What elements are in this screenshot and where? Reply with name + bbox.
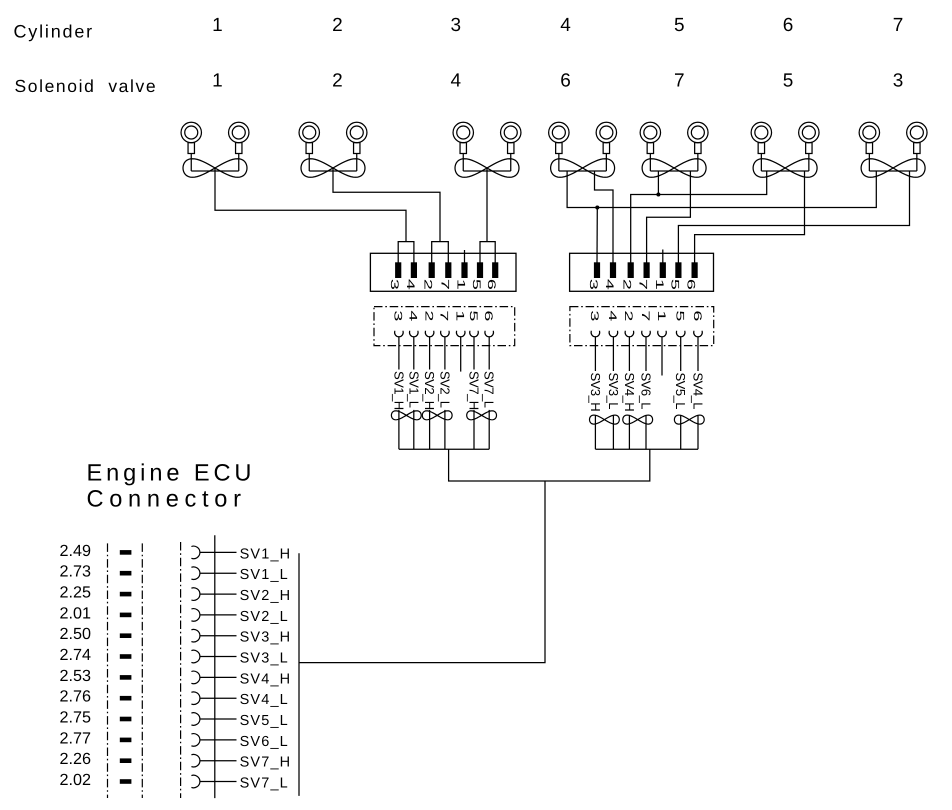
svg-text:Cylinder: Cylinder [14, 22, 94, 42]
wire solenoid SV1 center tap to connector A pins 3-4 [215, 168, 406, 242]
svg-text:2: 2 [621, 279, 633, 290]
svg-text:4: 4 [603, 279, 615, 290]
connector B pin 2 [628, 262, 634, 278]
svg-text:1: 1 [655, 310, 667, 321]
wire ECU SV3_L [200, 656, 237, 658]
ECU pin contact 2.02 [120, 779, 132, 784]
svg-text:2.49: 2.49 [60, 542, 92, 560]
connector A pin 6 [492, 262, 498, 278]
wire stub connector B pin 1 [662, 250, 664, 263]
connector A housing [370, 253, 516, 291]
wire mating connector A pin 1 unterminated [460, 336, 462, 371]
svg-text:5: 5 [668, 279, 680, 290]
ECU socket SV1_H [191, 546, 200, 559]
svg-text:3: 3 [392, 310, 404, 321]
connector A pin 5 [477, 262, 483, 278]
svg-text:6: 6 [560, 70, 571, 91]
connector B pin 6 [692, 262, 698, 278]
svg-text:6: 6 [783, 15, 794, 36]
svg-text:SV4_H: SV4_H [622, 373, 637, 412]
ECU pin contact 2.74 [120, 654, 132, 659]
svg-text:SV2_H: SV2_H [240, 588, 292, 604]
wire SV2_H harness (left) [429, 336, 431, 369]
svg-text:SV1_H: SV1_H [391, 371, 406, 410]
ECU pin contact 2.26 [120, 758, 132, 763]
twisted pair symbol SV1 (left) [391, 411, 421, 420]
svg-text:5: 5 [674, 310, 686, 321]
ECU pin contact 2.75 [120, 717, 132, 722]
wire SV2_L harness (left) [444, 336, 446, 369]
svg-text:SV1_L: SV1_L [406, 371, 421, 408]
svg-text:2.77: 2.77 [60, 729, 92, 747]
wire ECU SV1_H [200, 551, 237, 553]
ECU socket SV7_H [191, 754, 200, 767]
svg-text:SV2_H: SV2_H [422, 371, 437, 410]
wire ECU SV6_L [200, 739, 237, 741]
wire SV7_H harness (left) [473, 336, 475, 369]
ECU boundary line 2 (dash-dot) [141, 543, 143, 798]
mating connector A outline (dash-dot) [374, 307, 515, 346]
twisted pair symbol SV5/SV4 (right) [674, 415, 704, 424]
svg-text:3: 3 [587, 279, 599, 290]
svg-text:2: 2 [622, 310, 634, 321]
connector B housing [570, 253, 714, 291]
twisted pair symbol SV3 (right) [590, 415, 620, 424]
ECU socket SV7_L [191, 775, 200, 788]
solenoid valve coil SV6 (cylinder 4) [549, 122, 617, 177]
wire ECU SV1_L [200, 572, 237, 574]
wire SV3_L harness (right) [612, 336, 614, 371]
wire SV7_L harness (left) [488, 336, 490, 369]
svg-text:3: 3 [388, 279, 400, 290]
svg-text:6: 6 [685, 279, 697, 290]
ECU pin contact 2.49 [120, 550, 132, 555]
svg-text:7: 7 [438, 279, 450, 290]
svg-text:2: 2 [422, 279, 434, 290]
wire harness trunk to Engine ECU [299, 481, 545, 663]
svg-text:SV5_L: SV5_L [240, 713, 289, 729]
ECU connector body line [214, 535, 216, 798]
wire ECU SV7_L [200, 781, 237, 783]
svg-text:2.76: 2.76 [60, 688, 92, 706]
wire mating connector B pin 1 unterminated [661, 336, 663, 375]
svg-text:5: 5 [674, 15, 685, 36]
solenoid valve coil SV1 (cylinder 1) [181, 122, 249, 177]
svg-text:4: 4 [404, 279, 416, 290]
wire bridge connector A pins 2-7 [432, 242, 449, 263]
wire solenoid SV3 right lead to connector B pin 5 [678, 171, 909, 263]
wire SV4_L harness (right) [697, 336, 699, 371]
svg-text:1: 1 [454, 310, 466, 321]
svg-text:5: 5 [470, 279, 482, 290]
svg-text:1: 1 [455, 279, 467, 290]
svg-text:2: 2 [332, 15, 343, 36]
connector A pin 7 [445, 262, 451, 278]
svg-text:7: 7 [674, 70, 685, 91]
wire ECU SV4_L [200, 697, 237, 699]
connector B pin 1 [660, 262, 666, 278]
svg-text:Solenoid valve: Solenoid valve [15, 76, 158, 96]
svg-text:2.01: 2.01 [60, 604, 92, 622]
svg-text:SV4_L: SV4_L [240, 692, 289, 708]
wire solenoid SV2 center tap to connector A pins 2-7 [333, 168, 440, 242]
connector A pin 4 [411, 262, 417, 278]
wire ECU SV4_H [200, 676, 237, 678]
wire stub connector A pin 1 [464, 250, 466, 263]
wire branch down to connector B pin 3 [596, 208, 598, 263]
svg-text:3: 3 [588, 310, 600, 321]
svg-text:SV6_L: SV6_L [240, 734, 289, 750]
svg-text:7: 7 [438, 310, 450, 321]
svg-text:SV7_H: SV7_H [467, 371, 482, 410]
svg-text:SV4_L: SV4_L [691, 373, 706, 410]
svg-text:7: 7 [893, 15, 904, 36]
ECU pin contact 2.01 [120, 613, 132, 618]
wire ECU SV3_H [200, 635, 237, 637]
svg-text:SV2_L: SV2_L [240, 609, 289, 625]
ECU pin contact 2.77 [120, 738, 132, 743]
ECU socket SV6_L [191, 734, 200, 747]
wire solenoid SV4 center tap to connector A pins 5-6 [486, 168, 488, 242]
wire solenoid SV6 right lead to connector B pin 4 [595, 171, 614, 263]
svg-text:1: 1 [212, 70, 223, 91]
bus junction right harness [595, 448, 698, 450]
wire SV1_H harness (left) [398, 336, 400, 369]
ECU boundary line 1 (dash-dot) [107, 543, 109, 798]
svg-text:SV3_H: SV3_H [240, 630, 292, 646]
svg-text:7: 7 [639, 310, 651, 321]
svg-text:SV7_H: SV7_H [240, 755, 292, 771]
svg-text:1: 1 [653, 279, 665, 290]
solenoid valve coil SV5 (cylinder 6) [751, 122, 819, 177]
svg-text:1: 1 [212, 15, 223, 36]
svg-text:SV6_L: SV6_L [639, 373, 654, 410]
svg-text:6: 6 [482, 310, 494, 321]
svg-text:SV7_L: SV7_L [482, 371, 497, 408]
svg-text:4: 4 [407, 310, 419, 321]
wire bridge connector A pins 3-4 [398, 242, 414, 263]
wire SV5_L harness (right) [680, 336, 682, 371]
svg-text:SV5_L: SV5_L [673, 373, 688, 410]
wire ECU SV7_H [200, 760, 237, 762]
svg-text:6: 6 [691, 310, 703, 321]
ECU socket SV2_H [191, 588, 200, 601]
svg-text:5: 5 [467, 310, 479, 321]
wire SV1_L harness (left) [413, 336, 415, 369]
connector A pin 3 [395, 262, 401, 278]
svg-text:2.25: 2.25 [60, 583, 92, 601]
svg-text:2: 2 [422, 310, 434, 321]
svg-text:SV4_H: SV4_H [240, 671, 292, 687]
connector B pin 3 [594, 262, 600, 278]
junction node SV7 left lead [656, 193, 660, 197]
ECU socket SV4_L [191, 692, 200, 705]
wire solenoid SV6 left lead to connector B pin 3 and SV3 left lead [567, 171, 876, 208]
ECU socket SV3_L [191, 650, 200, 663]
svg-text:SV1_H: SV1_H [240, 546, 292, 562]
connector B pin 7 [644, 262, 650, 278]
ECU pin contact 2.76 [120, 696, 132, 701]
svg-text:2.73: 2.73 [60, 563, 92, 581]
svg-text:2.50: 2.50 [60, 625, 92, 643]
connector B pin 5 [675, 262, 681, 278]
svg-text:5: 5 [783, 70, 794, 91]
ECU socket SV1_L [191, 567, 200, 580]
wire solenoid SV7 right lead to connector B pin 7 [647, 171, 691, 263]
svg-text:SV2_L: SV2_L [437, 371, 452, 408]
connector A pin 2 [429, 262, 435, 278]
solenoid valve coil SV7 (cylinder 5) [640, 122, 708, 177]
wire SV3_H harness (right) [594, 336, 596, 371]
svg-text:3: 3 [893, 70, 904, 91]
svg-text:4: 4 [606, 310, 618, 321]
svg-text:2.53: 2.53 [60, 667, 92, 685]
svg-text:7: 7 [637, 279, 649, 290]
svg-text:3: 3 [451, 15, 462, 36]
ECU socket SV2_L [191, 609, 200, 622]
wire ECU SV5_L [200, 718, 237, 720]
svg-text:4: 4 [451, 70, 462, 91]
twisted pair symbol SV4/SV6 (right) [623, 415, 653, 424]
wire solenoid SV7 left lead junction [657, 171, 659, 195]
ECU pin contact 2.50 [120, 633, 132, 638]
svg-text:SV3_H: SV3_H [588, 373, 603, 412]
svg-text:2.26: 2.26 [60, 750, 92, 768]
svg-text:2.74: 2.74 [60, 646, 92, 664]
wire ECU SV2_H [200, 593, 237, 595]
ECU socket SV3_H [191, 629, 200, 642]
svg-text:SV3_L: SV3_L [606, 373, 621, 410]
connector B pin 4 [610, 262, 616, 278]
svg-text:2: 2 [332, 70, 343, 91]
mating connector B outline (dash-dot) [570, 307, 714, 346]
svg-text:4: 4 [560, 15, 571, 36]
wire bridge connector A pins 5-6 [480, 242, 495, 263]
ECU harness bus line [298, 553, 300, 796]
connector A pin 1 [461, 262, 467, 278]
ECU boundary line 3 (dash-dot) [180, 542, 182, 798]
svg-text:Engine ECU: Engine ECU [87, 461, 256, 487]
twisted pair symbol SV7 (left) [467, 411, 497, 420]
svg-text:SV1_L: SV1_L [240, 567, 289, 583]
twisted pair symbol SV2 (left) [422, 411, 452, 420]
junction node at connector B pin 3 branch [595, 206, 599, 210]
wire harness trunk join [449, 449, 650, 481]
solenoid valve coil SV3 (cylinder 7) [859, 122, 927, 177]
solenoid valve coil SV4 (cylinder 3) [453, 122, 521, 177]
ECU pin contact 2.25 [120, 592, 132, 597]
svg-text:2.75: 2.75 [60, 708, 92, 726]
wire connector B pin 2 to SV5 left lead [631, 171, 767, 263]
svg-text:Connector: Connector [87, 486, 247, 512]
wire ECU SV2_L [200, 614, 237, 616]
ECU socket SV4_H [191, 671, 200, 684]
wire SV6_L harness (right) [645, 336, 647, 371]
svg-text:6: 6 [485, 279, 497, 290]
bus junction left harness [399, 448, 489, 450]
svg-text:SV7_L: SV7_L [240, 775, 289, 791]
ECU socket SV5_L [191, 713, 200, 726]
wire SV4_H harness (right) [628, 336, 630, 371]
wire solenoid SV5 right lead to connector B pin 6 [695, 171, 805, 263]
svg-text:2.02: 2.02 [60, 771, 92, 789]
ECU pin contact 2.53 [120, 675, 132, 680]
solenoid valve coil SV2 (cylinder 2) [299, 122, 367, 177]
svg-text:SV3_L: SV3_L [240, 650, 289, 666]
ECU pin contact 2.73 [120, 571, 132, 576]
